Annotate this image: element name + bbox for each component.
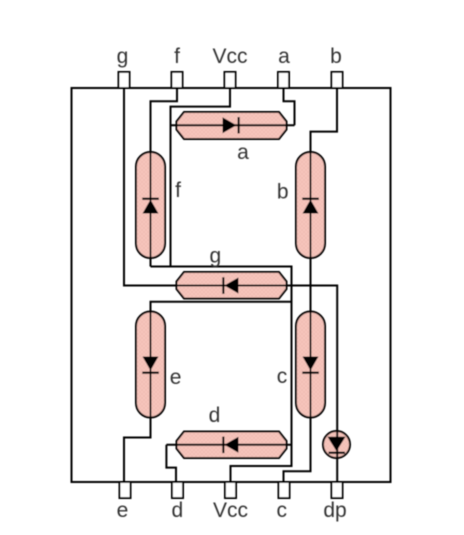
svg-text:c: c <box>276 499 287 522</box>
svg-text:e: e <box>117 499 129 522</box>
svg-text:g: g <box>209 245 221 268</box>
svg-text:a: a <box>237 141 249 164</box>
svg-text:Vcc: Vcc <box>212 45 247 68</box>
svg-text:f: f <box>175 179 181 202</box>
svg-text:g: g <box>117 45 129 68</box>
svg-text:c: c <box>277 365 288 388</box>
svg-text:dp: dp <box>323 499 346 522</box>
svg-text:d: d <box>172 499 184 522</box>
svg-text:d: d <box>209 404 221 427</box>
svg-text:f: f <box>174 45 180 68</box>
svg-text:b: b <box>330 45 342 68</box>
svg-text:a: a <box>278 45 290 68</box>
svg-text:Vcc: Vcc <box>213 499 248 522</box>
svg-text:e: e <box>170 366 182 389</box>
svg-text:b: b <box>277 181 289 204</box>
